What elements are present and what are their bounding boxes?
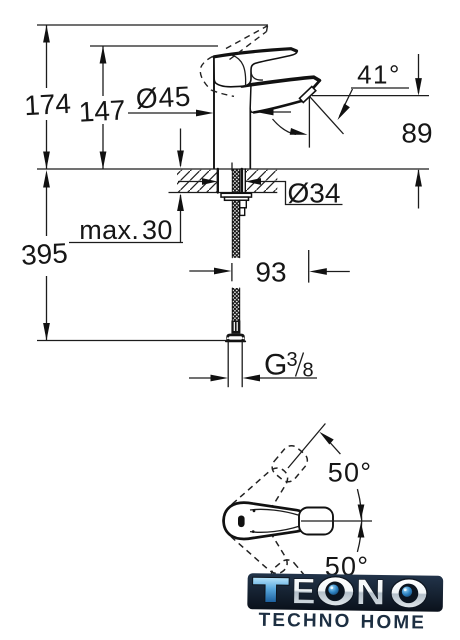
- faucet body: [214, 84, 251, 169]
- TEONO logo: [247, 570, 443, 634]
- wire: 174 top extension line: [37, 24, 268, 26]
- flexible hose lower part: [232, 288, 239, 321]
- 41 degree vertical reference: [308, 97, 311, 283]
- top view: centerline: [301, 520, 372, 522]
- bottom reference line (395): [37, 340, 227, 342]
- 41 degree slant line: [310, 97, 344, 134]
- svg-text:Ø45: Ø45: [135, 81, 192, 115]
- hole right edge: [244, 169, 246, 193]
- D34 leader: [277, 182, 343, 205]
- hose break tick: [231, 263, 233, 281]
- svg-text:TECHNO: TECHNO: [258, 610, 351, 632]
- svg-text:93: 93: [255, 257, 286, 288]
- flexible hose upper part: [232, 200, 239, 257]
- top view: dark oval: [238, 516, 245, 528]
- wire: D45 right arrow: [267, 111, 291, 113]
- lever neck curve: [251, 72, 263, 81]
- svg-text:G: G: [264, 349, 287, 382]
- 50 degree arc: [357, 489, 361, 552]
- svg-text:Ø34: Ø34: [288, 178, 341, 209]
- spout: [250, 77, 320, 112]
- spout underside thick curve: [254, 101, 302, 112]
- 93 dimension: [189, 270, 224, 272]
- cartridge dome curve: [232, 55, 246, 86]
- wire: 147 dimension line: [102, 46, 104, 169]
- hose nut: [226, 334, 245, 342]
- svg-text:174: 174: [23, 88, 71, 121]
- 50 degree leader arrow: [330, 443, 340, 455]
- D34 dimension arrows: [178, 181, 210, 183]
- washer under deck: [221, 193, 252, 197]
- lever top thick edge: [214, 49, 297, 57]
- svg-text:HOME: HOME: [360, 612, 426, 634]
- deck hatched section left: [177, 170, 218, 192]
- dashed lever raised position: [200, 26, 267, 97]
- aerator: [300, 87, 316, 103]
- svg-text:41°: 41°: [357, 60, 401, 90]
- connection steps: [240, 200, 247, 208]
- svg-text:8: 8: [303, 360, 314, 382]
- svg-text:89: 89: [401, 118, 432, 149]
- hose end fitting: [231, 321, 240, 334]
- deck hatched section right: [246, 170, 278, 192]
- wire: 174 dimension line: [46, 25, 48, 169]
- wire: D45 leader: [128, 112, 206, 114]
- deck bottom line: [169, 192, 278, 194]
- 89 dimension: [312, 95, 429, 97]
- pull rod: [241, 169, 244, 193]
- top view: dashed handle rotated up 50: [216, 439, 314, 546]
- top view: handle body: [224, 503, 307, 539]
- G3/8 pipe: [227, 341, 229, 387]
- deck reference line: [37, 168, 429, 170]
- max. 30 dimension: [180, 129, 182, 167]
- G3/8 dimension: [189, 377, 221, 379]
- top view: inner contour: [250, 509, 299, 515]
- top view: handle grip end: [299, 508, 333, 535]
- 50 degree slant line: [288, 424, 325, 469]
- svg-text:max. 30: max. 30: [79, 215, 173, 245]
- threaded shank in deck: [232, 169, 239, 193]
- lever handle: [214, 49, 297, 87]
- spout tip edge: [302, 81, 320, 101]
- top view: dots: [253, 509, 256, 512]
- spout top thick edge: [242, 77, 319, 86]
- centerline tick: [231, 163, 233, 172]
- hole left edge: [217, 169, 219, 193]
- svg-text:147: 147: [78, 94, 126, 127]
- wire: 147 top extension line: [90, 45, 218, 47]
- svg-text:N: N: [355, 571, 386, 612]
- svg-text:E: E: [291, 570, 316, 611]
- svg-text:3: 3: [287, 349, 298, 371]
- svg-text:395: 395: [20, 237, 68, 270]
- svg-text:50°: 50°: [328, 458, 372, 488]
- top view: dashed handle rotated down 50: [216, 495, 314, 602]
- 395 dimension line: [46, 183, 48, 341]
